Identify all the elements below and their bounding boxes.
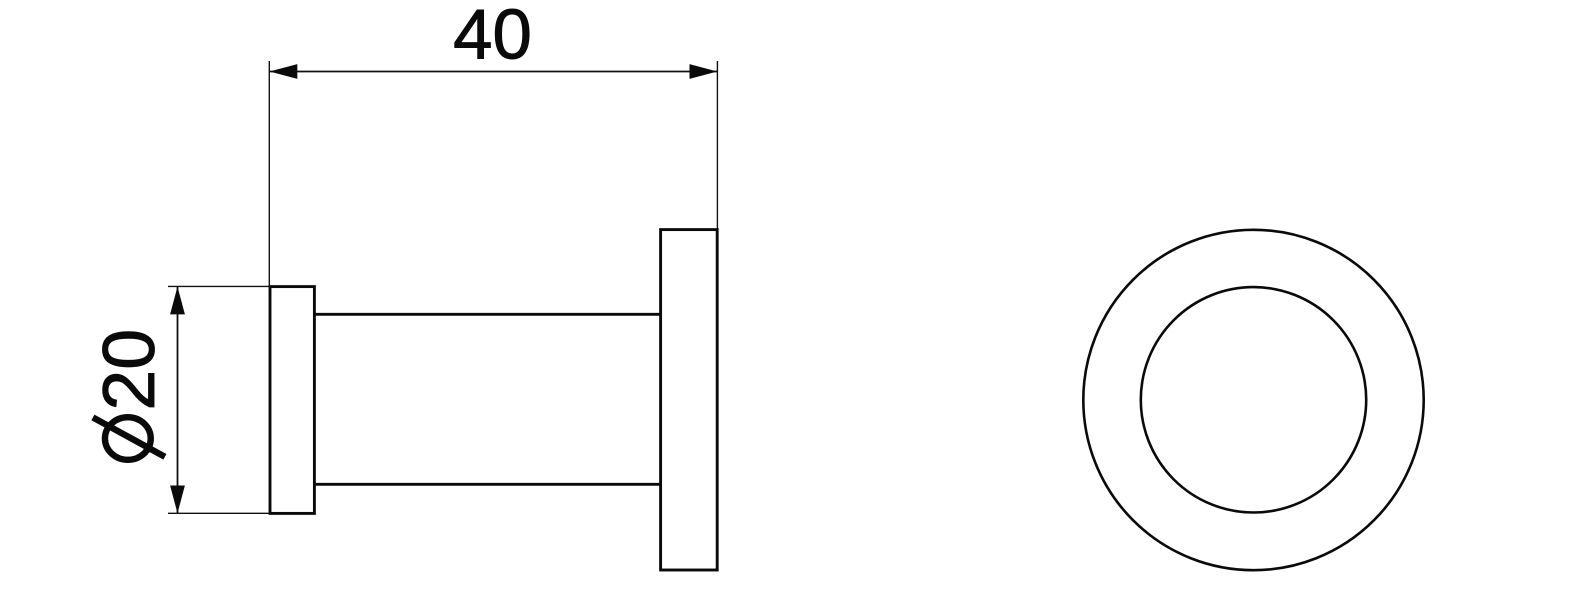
svg-text:20: 20	[87, 329, 170, 411]
dimension line 40	[270, 71, 718, 73]
arrowhead left of 40 dimension	[270, 64, 298, 79]
extension line bottom of diameter 20 dimension	[168, 512, 270, 514]
extension line top of diameter 20 dimension	[168, 285, 270, 287]
extension line right of 40 dimension	[716, 61, 718, 229]
diameter symbol circle (rotated phi)	[105, 417, 151, 460]
svg-text:40: 40	[453, 0, 532, 74]
cylinder body top line	[314, 313, 660, 316]
wall plate rectangle (side view)	[661, 230, 718, 570]
arrowhead right of 40 dimension	[690, 64, 718, 79]
diameter symbol slash	[93, 417, 165, 456]
outer circle (front view, wall plate)	[1083, 230, 1423, 570]
arrowhead bottom of diameter 20 dimension	[170, 486, 185, 514]
cylinder body bottom line	[314, 483, 660, 486]
inner circle (front view, hook body)	[1141, 287, 1366, 512]
arrowhead top of diameter 20 dimension	[170, 287, 185, 315]
hook cap rectangle (side view)	[270, 287, 314, 514]
extension line left of 40 dimension	[268, 61, 270, 286]
dimension line diameter 20	[177, 287, 179, 514]
